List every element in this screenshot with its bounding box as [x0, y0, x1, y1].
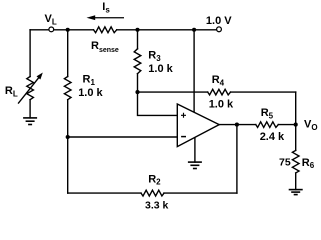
RL arrowhead	[37, 73, 43, 80]
wire top rail left	[30, 29, 48, 31]
op-amp plus sign	[181, 113, 186, 118]
RL arrow	[19, 78, 39, 103]
resistor Rsense	[94, 27, 117, 33]
junction dot 1.0V node	[192, 28, 196, 32]
svg-text:3.3 k: 3.3 k	[145, 199, 169, 211]
wire right vertical to output	[236, 125, 238, 194]
wire R3 node to R4	[138, 91, 208, 93]
ground (op-amp)	[188, 162, 202, 168]
svg-text:1.0 k: 1.0 k	[209, 99, 234, 111]
resistor R2	[141, 190, 164, 196]
wire bottom rail right	[164, 192, 237, 194]
wire R6 to ground	[295, 173, 297, 190]
resistor R5	[256, 122, 278, 128]
wire left vertical to R_L	[29, 30, 31, 77]
op-amp U1	[177, 104, 219, 147]
wire op-amp output	[219, 124, 256, 126]
wire R1 bottom to bottom rail	[67, 100, 69, 193]
svg-text:2.4 k: 2.4 k	[260, 131, 285, 143]
wire R5 to Vo node	[278, 124, 296, 126]
wire Vo node to R6	[295, 125, 297, 151]
wire top rail R_sense to 1.0V	[117, 29, 217, 31]
junction dot output node	[235, 123, 239, 127]
ground (below RL)	[23, 118, 37, 125]
wire R4 down to Vo node	[295, 92, 297, 125]
svg-text:75: 75	[279, 157, 291, 169]
svg-text:1.0 k: 1.0 k	[148, 63, 173, 75]
junction dot top R1	[66, 28, 70, 32]
resistor R6	[292, 150, 299, 173]
ground (below R6)	[289, 190, 303, 195]
op-amp minus sign	[181, 136, 186, 138]
resistor RL (variable)	[27, 77, 34, 100]
svg-text:1.0 V: 1.0 V	[206, 15, 232, 27]
wire RL to ground	[29, 100, 31, 118]
resistor R1	[64, 77, 71, 100]
resistor R3	[134, 49, 141, 74]
junction dot Vo node	[294, 123, 298, 127]
wire bottom rail left	[68, 192, 141, 194]
wire R3 top	[137, 30, 139, 49]
junction dot top R3	[135, 28, 139, 32]
terminal 1.0V (open circle)	[217, 27, 222, 32]
resistor R4	[208, 89, 231, 95]
wire op-amp - input	[68, 136, 178, 138]
wire R4 right	[231, 91, 296, 93]
junction dot minus input node	[66, 135, 70, 139]
terminal VL (open circle)	[49, 27, 54, 32]
wire to op-amp + input	[138, 92, 178, 115]
wire R3 bottom	[137, 74, 139, 92]
junction dot R3 bottom node	[135, 90, 139, 94]
wire op-amp ground stem	[194, 137, 196, 162]
wire top rail V_L to R_sense	[54, 29, 94, 31]
wire R1 top	[67, 30, 69, 77]
Is arrow	[87, 15, 125, 20]
wire 1.0V supply to op-amp	[193, 30, 195, 113]
svg-text:1.0 k: 1.0 k	[78, 87, 103, 99]
